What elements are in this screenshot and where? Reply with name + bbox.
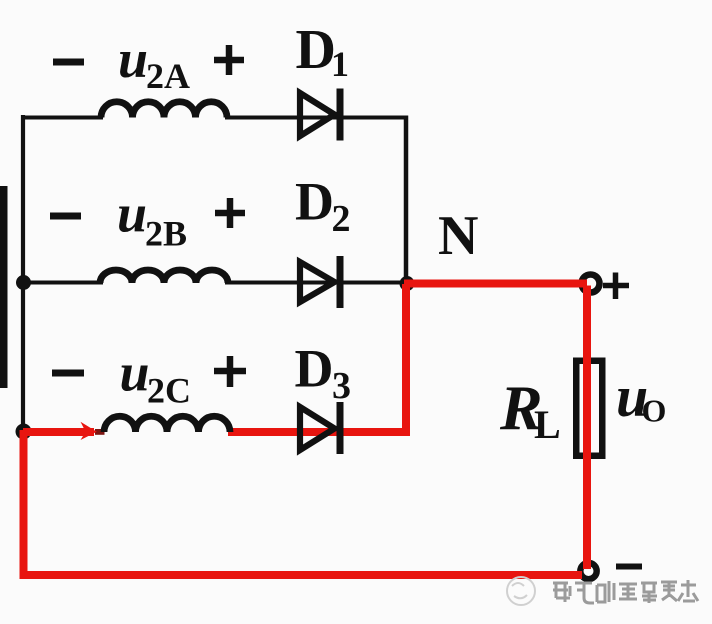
svg-text:u: u <box>117 184 147 244</box>
svg-text:D: D <box>296 19 336 81</box>
terminal: output - (open circle) <box>580 563 596 579</box>
node N junction dot <box>400 276 415 291</box>
watermark logo <box>507 577 535 605</box>
wire: red right vertical through resistor <box>583 286 591 570</box>
label plus of u2A <box>214 45 244 75</box>
wire: red bottom return path <box>24 430 583 575</box>
wire: right vertical from row1 corner down to node N <box>404 116 409 284</box>
label D1 <box>296 19 350 84</box>
label u2B <box>117 184 187 254</box>
svg-text:2A: 2A <box>146 56 190 96</box>
watermark text <box>553 580 698 603</box>
label minus of u2B <box>50 213 81 220</box>
svg-text:2B: 2B <box>145 214 187 254</box>
transformer core bar <box>0 186 8 388</box>
label D2 <box>295 172 351 241</box>
svg-text:u: u <box>118 29 148 89</box>
label minus of u2A <box>53 59 84 66</box>
label plus of u2B <box>215 198 245 228</box>
label plus of u2C <box>214 356 246 387</box>
svg-text:N: N <box>438 205 478 267</box>
wire: row2 winding to node N (passes under D2) <box>225 281 406 285</box>
label u2C <box>120 343 192 411</box>
wire: red top horizontal from N to + terminal <box>404 280 587 288</box>
label minus of u2C <box>52 370 84 377</box>
label RL <box>499 372 561 447</box>
label uO <box>616 364 666 429</box>
label u2A <box>118 29 190 96</box>
winding u2C (inductor coil, black over red) <box>104 416 230 432</box>
svg-text:O: O <box>642 393 667 429</box>
label plus at output terminal <box>603 273 629 300</box>
diode D3 <box>300 402 344 454</box>
label D3 <box>295 339 352 408</box>
wire: red row3 from bus junction to winding u2C <box>23 428 94 436</box>
svg-text:D: D <box>295 339 334 399</box>
current arrow on red wire <box>81 422 97 440</box>
svg-text:2: 2 <box>332 198 351 240</box>
diode D2 <box>300 256 344 308</box>
resistor RL body <box>576 361 602 456</box>
winding u2B (inductor coil) <box>100 270 228 283</box>
svg-text:D: D <box>295 172 334 232</box>
svg-text:L: L <box>534 402 561 447</box>
wire: row2 from bus to winding u2B <box>21 281 103 285</box>
svg-text:1: 1 <box>331 44 349 84</box>
terminal: output + (open circle) <box>582 275 600 293</box>
diode D1 <box>300 89 344 141</box>
junction dot: bus at row3 <box>16 424 32 440</box>
wire: red row3 from winding through D3 up to node N <box>228 284 406 432</box>
svg-text:2C: 2C <box>147 371 191 411</box>
wire: row1 winding to right corner (passes under D1) <box>225 116 408 120</box>
svg-text:u: u <box>120 343 150 403</box>
junction dot: bus at row2 <box>16 275 31 290</box>
label minus at output terminal <box>616 564 642 570</box>
wire: row1 from bus to winding u2A <box>21 116 103 120</box>
svg-text:3: 3 <box>332 365 351 407</box>
winding u2A (inductor coil) <box>101 102 227 118</box>
wire: left vertical bus <box>21 115 25 433</box>
